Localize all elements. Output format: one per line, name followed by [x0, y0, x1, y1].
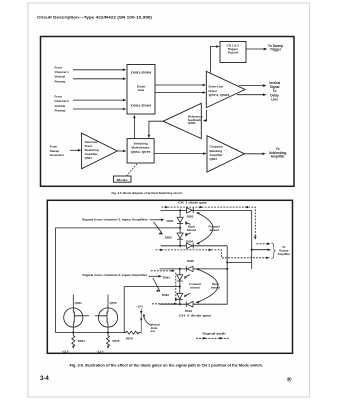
wire multivibrator to chopped blanking — [154, 153, 205, 155]
wire CH1 bottom dashed signal path — [156, 250, 270, 258]
wire ch2 input arrow 2 — [73, 108, 124, 110]
wire dashed mode switch link — [127, 163, 138, 176]
diode D584 — [187, 243, 193, 248]
svg-text:Q574, Q584: Q574, Q584 — [209, 93, 230, 97]
resistor R564 — [72, 335, 75, 347]
wire driver top to trigger pickoff — [210, 47, 218, 73]
wire B from multivibrator Q575 loop — [124, 287, 180, 333]
svg-text:Q564: Q564 — [85, 156, 93, 160]
svg-text:D581: D581 — [167, 219, 174, 223]
svg-text:D581-D584: D581-D584 — [131, 70, 151, 74]
wire ch1 label slant arrow — [154, 222, 163, 234]
wire ch2 label arrow — [149, 275, 161, 277]
wire ch1 input arrow 2 — [73, 78, 124, 80]
svg-text:CH. 2 diode gate: CH. 2 diode gate — [179, 314, 212, 318]
wire right bus vertical — [226, 246, 228, 304]
wire driver output 2 — [237, 94, 264, 96]
diode D594 — [187, 302, 193, 307]
wire Q575 collector — [107, 295, 109, 312]
svg-text:Vertical: Vertical — [55, 75, 66, 79]
svg-text:Amplifier: Amplifier — [271, 155, 286, 159]
figure 1 border — [41, 37, 295, 187]
svg-text:−12 V: −12 V — [136, 305, 143, 309]
wire feedback to multivibrator — [149, 121, 163, 136]
wire bus to output node — [227, 261, 252, 263]
svg-text:From: From — [55, 95, 63, 99]
wire ch2 label slant arrow — [153, 278, 160, 291]
svg-text:D584: D584 — [186, 239, 193, 243]
wire ch1 input arrow 1 — [73, 69, 124, 71]
curved arrow CH2 back biased — [197, 269, 219, 303]
svg-text:Trigger: Trigger — [270, 47, 282, 51]
diode D593 — [177, 293, 183, 298]
svg-text:Fig. 3-6. Illustration of the: Fig. 3-6. Illustration of the effect of … — [70, 363, 264, 367]
svg-text:Circuit Description—Type 422/R: Circuit Description—Type 422/R422 (SN 10… — [37, 15, 153, 20]
wire Q564 base stub — [83, 315, 89, 317]
wire CH1 bottom rail — [161, 245, 228, 247]
svg-text:R575: R575 — [113, 339, 120, 343]
wire CH1 diode chain vertical — [179, 210, 181, 245]
op-amp A3 chopped blanking amplifier triangle — [207, 136, 245, 172]
diode D583 — [177, 233, 183, 238]
wire ch2 input arrow 1 — [73, 99, 124, 101]
op-amp A4 reference feedback triangle (points left) — [163, 103, 201, 138]
wire A from multivibrator Q564 loop — [56, 228, 181, 333]
wire CH2 dashed input — [151, 270, 174, 272]
svg-text:D593: D593 — [162, 293, 169, 297]
svg-text:Preamp: Preamp — [55, 79, 66, 83]
diode D581 — [177, 217, 183, 222]
svg-text:−12 V: −12 V — [96, 349, 103, 353]
svg-text:3-4: 3-4 — [40, 375, 49, 382]
svg-text:Preamp: Preamp — [55, 109, 66, 113]
svg-text:Channel 1: Channel 1 — [55, 70, 70, 74]
wire multivibrator to diode gate — [133, 117, 135, 139]
svg-text:Signal from channel 2 input Am: Signal from channel 2 input Amplifier — [82, 273, 148, 277]
wire CH2 bottom rail — [160, 303, 228, 305]
svg-text:R579: R579 — [126, 337, 133, 341]
svg-text:Signal path: Signal path — [202, 331, 226, 335]
wire Q575 base stub — [95, 315, 99, 317]
diode D591 — [177, 275, 183, 280]
wire CH1 top dashed signal path — [161, 207, 255, 239]
svg-text:Line: Line — [271, 97, 278, 101]
curved arrow CH1 back biased upper — [186, 221, 191, 224]
svg-text:−12 V: −12 V — [62, 349, 69, 353]
curved pointer vertical diode bus — [144, 315, 152, 326]
curved arrow CH2 forward biased upper — [185, 275, 191, 279]
wire -12V feed — [140, 309, 142, 333]
svg-text:D591: D591 — [163, 275, 170, 279]
resistor R579 — [126, 331, 139, 334]
wire Q564 emitter — [72, 324, 74, 335]
svg-text:Fig. 3-5. Block diagram of Ver: Fig. 3-5. Block diagram of Vertical Swit… — [112, 191, 183, 195]
wire right vertical to output node — [251, 210, 253, 269]
curved arrow CH1 forward biased — [197, 213, 213, 244]
wire signal path legend sample — [196, 337, 229, 339]
brace to output amplifier — [271, 243, 275, 259]
transistor Q564 — [64, 308, 83, 327]
svg-text:biased: biased — [210, 228, 219, 232]
box: diode gate D581-D594 — [127, 65, 155, 115]
svg-text:D583: D583 — [165, 235, 172, 239]
wire dashed into brace top — [257, 243, 270, 245]
box: Mode switch — [114, 176, 132, 182]
wire driver bottom to feedback — [205, 110, 207, 121]
svg-text:Generator: Generator — [50, 153, 65, 157]
svg-text:Amplifier: Amplifier — [278, 252, 291, 256]
wire CH2 diode chain vertical — [179, 269, 181, 304]
svg-text:®: ® — [287, 377, 292, 384]
curved arrow CH1 back biased lower — [186, 233, 191, 236]
wire CH1 top rail — [161, 209, 252, 211]
wire gate to driver line 2 — [155, 92, 204, 94]
svg-text:Q564: Q564 — [75, 301, 82, 305]
svg-text:Q593: Q593 — [188, 121, 196, 125]
svg-text:D591-D594: D591-D594 — [131, 103, 151, 107]
svg-text:Q554, Q575: Q554, Q575 — [131, 150, 151, 154]
svg-text:R564: R564 — [78, 339, 85, 343]
resistor R575 — [107, 335, 110, 347]
svg-text:biased: biased — [190, 285, 199, 289]
svg-text:Vertical: Vertical — [55, 104, 66, 108]
svg-text:Q575: Q575 — [110, 301, 117, 305]
op-amp A2 alternate trace switching amplifier triangle — [82, 133, 118, 169]
wire gate to driver line 1 — [155, 84, 204, 86]
wire driver output 1 — [239, 85, 264, 87]
curved arrow CH2 forward biased lower — [185, 293, 191, 297]
wire emitter bus — [56, 332, 142, 334]
svg-text:Pickoff: Pickoff — [228, 51, 238, 55]
svg-text:From: From — [55, 65, 63, 69]
arrowheads fig2 — [165, 206, 168, 209]
svg-text:D594: D594 — [185, 309, 192, 313]
wire CH2 dashed bottom — [152, 303, 177, 305]
svg-text:biased: biased — [211, 285, 220, 289]
svg-text:biased: biased — [187, 228, 196, 232]
wire chopped blanking output — [245, 153, 265, 155]
wire ch1 label arrow — [150, 219, 164, 221]
wire Q575 emitter — [107, 324, 109, 335]
svg-text:D592: D592 — [187, 259, 194, 263]
figure 2 border — [47, 200, 292, 353]
svg-text:bus: bus — [151, 329, 156, 333]
svg-text:D582: D582 — [187, 214, 194, 218]
transistor Q575 — [98, 308, 117, 327]
box: switching multivibrator Q554 Q575 — [127, 139, 154, 163]
node junction dots — [179, 209, 181, 211]
node arrowheads fig1 — [123, 69, 126, 72]
svg-text:CH. 1 diode gate: CH. 1 diode gate — [178, 200, 207, 204]
wire alt trace amp to multivibrator — [117, 150, 125, 152]
svg-text:Gate: Gate — [138, 88, 145, 92]
svg-text:Q594: Q594 — [210, 157, 218, 161]
svg-text:Signal from channel 1 input Am: Signal from channel 1 input Amplifier — [82, 217, 149, 221]
diode D592 — [187, 266, 193, 271]
svg-text:Channel 2: Channel 2 — [55, 99, 70, 103]
wire Q564 collector — [72, 295, 74, 312]
wire trigger pickoff output — [246, 48, 266, 50]
wire CH2 dashed shunt path — [175, 273, 177, 302]
diode D582 — [187, 208, 193, 213]
op-amp A1 drive-line driver triangle — [206, 71, 245, 107]
wire CH2 top rail — [160, 268, 228, 270]
box U: CH 1 &amp; 2 trigger pickoff — [220, 42, 246, 63]
svg-text:Mode: Mode — [117, 178, 129, 182]
wire output to amplifier brace — [252, 249, 270, 251]
wire sweep gen to alt trace amp — [70, 149, 80, 151]
